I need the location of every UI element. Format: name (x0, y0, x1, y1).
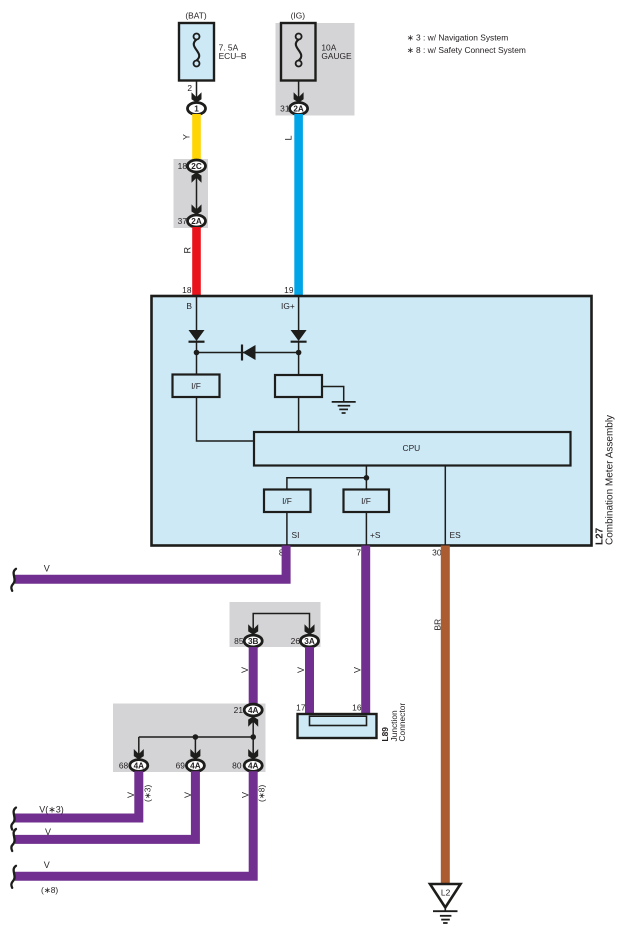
branch wire to 80 (248, 737, 258, 759)
svg-text:I/F: I/F (361, 496, 371, 506)
wire I/F to CPU (197, 397, 255, 441)
connector 3A pin 26 (291, 635, 319, 647)
svg-text:CPU: CPU (403, 443, 421, 453)
svg-text:SI: SI (292, 530, 300, 540)
svg-text:4A: 4A (248, 706, 259, 715)
continuation squiggle 1 (11, 569, 16, 591)
terminal ES lead (445, 466, 461, 546)
terminal +S lead (366, 512, 380, 546)
branch wire horizontal (139, 736, 253, 738)
svg-text:B: B (186, 301, 192, 311)
wire Y (yellow) (182, 114, 201, 161)
label Junction Connector (389, 703, 407, 742)
fuse F2 GAUGE (IG) gray background (276, 23, 355, 116)
svg-text:Y: Y (182, 134, 192, 140)
svg-text:(∗8): (∗8) (41, 885, 58, 895)
svg-text:V: V (296, 667, 306, 673)
fuse F2 GAUGE (IG) (281, 10, 352, 80)
connector 1 (188, 103, 206, 115)
svg-text:ES: ES (450, 530, 462, 540)
I/F box U2 (264, 490, 311, 513)
wire fuse to connector 2A (294, 80, 304, 103)
CPU box (254, 432, 571, 466)
svg-text:68: 68 (119, 761, 129, 771)
svg-text:2A: 2A (191, 217, 202, 226)
junction connector L89 pins 17/16 (296, 702, 362, 712)
node at 69 branch (193, 734, 199, 740)
continuation squiggle 4 (11, 866, 16, 888)
svg-text:∗ 3 : w/ Navigation System: ∗ 3 : w/ Navigation System (407, 32, 509, 42)
wire V from SI (purple) (15, 546, 286, 580)
diode D1 (189, 330, 205, 353)
continuation squiggle 2 (11, 808, 16, 830)
inter-connector wire with arrows (192, 172, 202, 215)
node at IG+ branch (296, 350, 302, 356)
terminal B lead (186, 296, 196, 330)
svg-text:ECU–B: ECU–B (219, 51, 247, 61)
node at 80 branch (250, 734, 256, 740)
svg-text:+S: +S (370, 530, 381, 540)
I/F box U3 (344, 490, 390, 513)
svg-text:18: 18 (178, 161, 188, 171)
pin 8 (279, 548, 284, 558)
wire regulator to CPU (298, 397, 300, 432)
wire between nodes (197, 352, 299, 354)
wire V +S to junction 16 (purple) (353, 546, 371, 715)
svg-text:V: V (240, 667, 250, 673)
node at B branch (194, 350, 200, 356)
internal ground (332, 402, 356, 413)
svg-text:80: 80 (232, 761, 242, 771)
connector block 2C/2A (gray) (174, 159, 209, 228)
diode D3 (242, 345, 256, 361)
wire to internal ground (322, 387, 344, 402)
wire 21 to branch (248, 716, 258, 737)
wire R (red) (183, 227, 201, 296)
svg-text:(∗8): (∗8) (257, 785, 267, 802)
I/F box U1 (173, 375, 220, 398)
connector 3B pin 85 (234, 635, 262, 647)
svg-text:IG+: IG+ (281, 301, 295, 311)
pin 18 of meter (182, 285, 192, 295)
svg-text:85: 85 (234, 636, 244, 646)
svg-text:R: R (183, 247, 193, 254)
svg-text:69: 69 (176, 761, 186, 771)
svg-text:Combination Meter Assembly: Combination Meter Assembly (605, 415, 616, 545)
svg-text:7: 7 (356, 548, 361, 558)
connector 2A pin 31 (280, 103, 307, 115)
svg-text:I/F: I/F (191, 381, 201, 391)
svg-text:Connector: Connector (397, 703, 407, 742)
svg-text:21: 21 (234, 705, 244, 715)
connector 4A pin 21 (234, 704, 263, 716)
svg-text:V: V (126, 792, 136, 798)
wire BR from ES (brown) (433, 546, 450, 885)
svg-text:2A: 2A (293, 105, 304, 114)
regulator box (blank) (275, 375, 322, 397)
svg-text:18: 18 (182, 285, 192, 295)
svg-text:37: 37 (178, 216, 188, 226)
svg-text:V(∗3): V(∗3) (39, 805, 64, 815)
svg-text:V: V (241, 792, 251, 798)
connector 2C pin 18 (178, 160, 206, 172)
svg-text:V: V (44, 860, 50, 870)
svg-text:∗ 8 : w/ Safety Connect System: ∗ 8 : w/ Safety Connect System (407, 45, 526, 55)
pin 2 of fuse box (187, 83, 192, 93)
branch wire to 68 (134, 737, 144, 759)
svg-text:16: 16 (352, 702, 362, 712)
svg-text:3A: 3A (304, 637, 315, 646)
note *8 w/ Safety Connect System (407, 45, 526, 55)
svg-text:V: V (353, 667, 363, 673)
branch wire to 69 (190, 737, 200, 759)
continuation squiggle 3 (11, 829, 16, 851)
wire V 3B to 4A (purple) (240, 647, 258, 705)
pin 19 of meter (284, 285, 294, 295)
svg-text:30: 30 (432, 548, 442, 558)
terminal SI lead (287, 512, 300, 546)
wire V from 69 (purple) (15, 771, 195, 839)
svg-text:4A: 4A (134, 762, 145, 771)
svg-text:L: L (284, 135, 294, 140)
terminal IG+ lead (281, 296, 299, 330)
svg-text:(BAT): (BAT) (185, 10, 206, 20)
pin 30 (432, 548, 442, 558)
svg-text:4A: 4A (248, 762, 259, 771)
label L89 (380, 727, 390, 742)
connector 2A pin 37 (178, 215, 206, 227)
wire fuse to connector 1 (192, 80, 202, 103)
connector 4A pin 69 (176, 760, 205, 772)
svg-text:26: 26 (291, 636, 301, 646)
svg-text:17: 17 (296, 702, 306, 712)
svg-text:2C: 2C (191, 162, 202, 171)
svg-text:I/F: I/F (282, 496, 292, 506)
ground L2 (430, 884, 461, 923)
label L27 (595, 527, 606, 545)
wire CPU down (365, 466, 367, 490)
svg-text:V: V (45, 827, 51, 837)
label Combination Meter Assembly (605, 415, 616, 545)
combination meter assembly L27 box (152, 296, 592, 546)
wire V(*8) from 80 (purple) (15, 771, 267, 895)
wire V(*3) from 68 (purple) (15, 771, 153, 818)
svg-text:1: 1 (194, 105, 199, 114)
svg-text:V: V (44, 564, 50, 574)
connector 4A pin 68 (119, 760, 148, 772)
note *3 w/ Navigation System (407, 32, 509, 42)
wire L (blue) (284, 114, 303, 296)
junction connector L89 (298, 714, 377, 738)
svg-text:L2: L2 (441, 888, 451, 898)
svg-text:(IG): (IG) (291, 10, 306, 20)
svg-text:GAUGE: GAUGE (321, 51, 352, 61)
wire to left lower I/F (287, 478, 367, 490)
pin 7 (356, 548, 361, 558)
connector 4A pin 80 (232, 760, 262, 772)
svg-text:BR: BR (433, 619, 443, 631)
connector block 4A (gray) (113, 704, 266, 773)
jumper wire 3B to 3A (248, 614, 314, 635)
svg-text:V: V (183, 792, 193, 798)
wire V 3A to junction 17 (purple) (296, 647, 314, 714)
node below CPU (364, 475, 370, 481)
svg-text:(∗3): (∗3) (143, 785, 153, 802)
wire to regulator box (298, 353, 300, 376)
connector block 3B/3A (gray) (230, 602, 321, 647)
wire to I/F (196, 353, 198, 375)
svg-text:4A: 4A (190, 762, 201, 771)
diode D2 (291, 330, 307, 353)
fuse F1 ECU-B (BAT) (179, 10, 247, 80)
svg-text:2: 2 (187, 83, 192, 93)
svg-text:19: 19 (284, 285, 294, 295)
svg-text:3B: 3B (248, 637, 259, 646)
